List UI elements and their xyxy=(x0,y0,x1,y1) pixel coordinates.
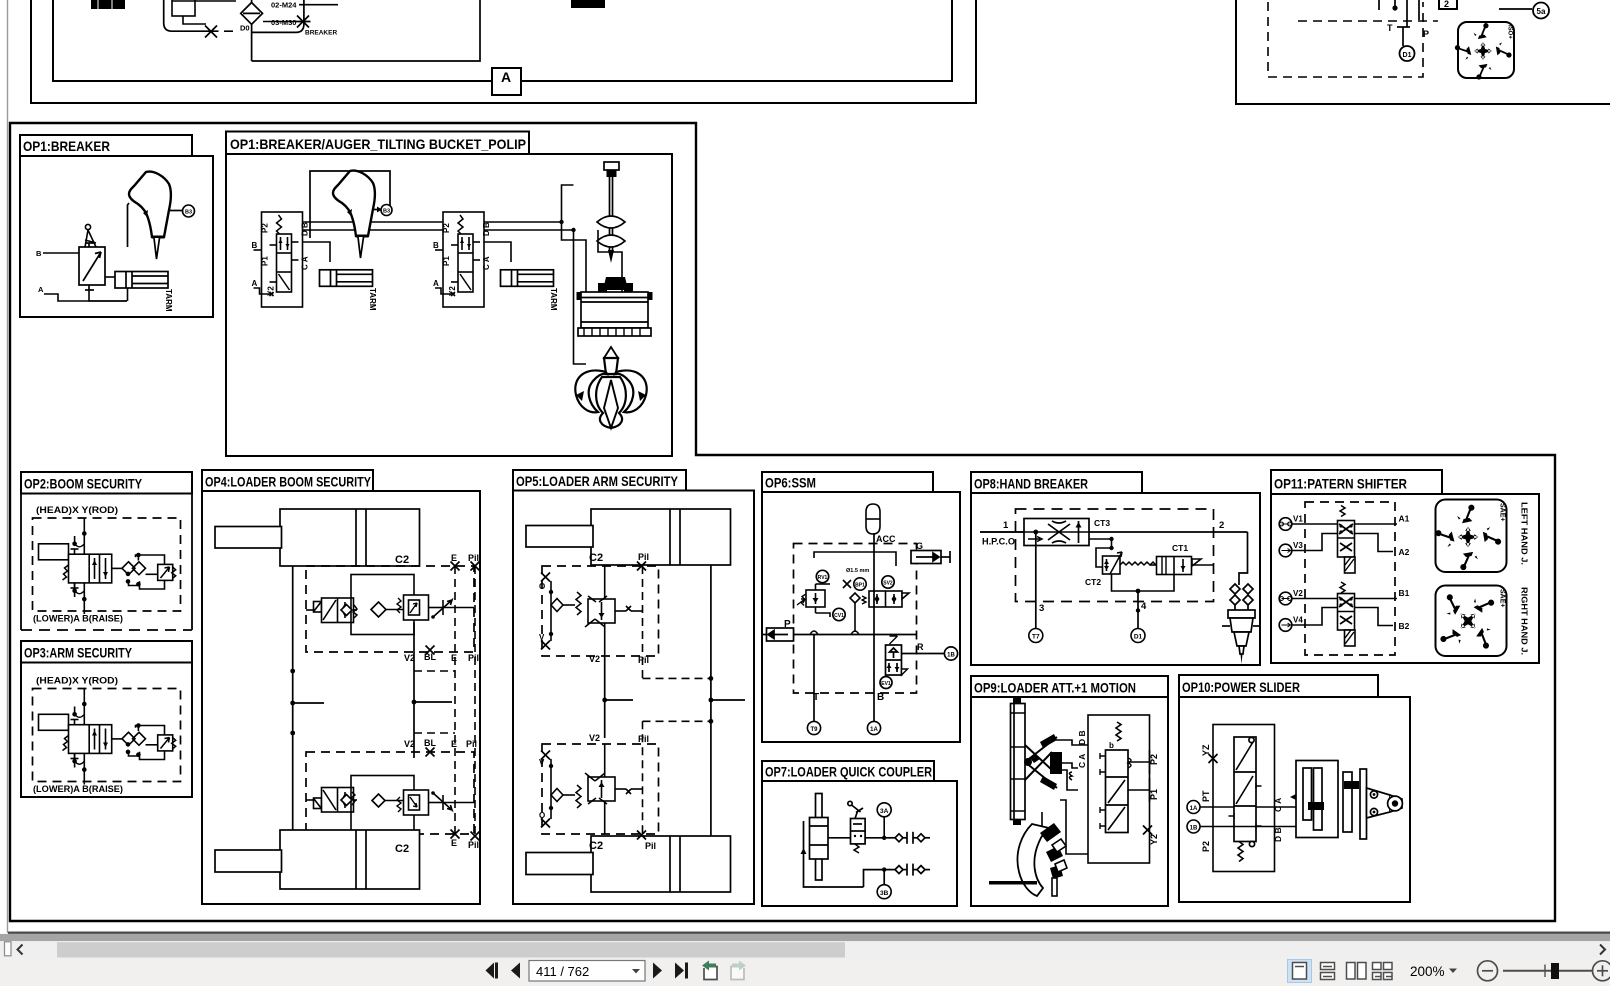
OP9 P rails xyxy=(1128,750,1150,802)
OP2:BOOM SECURITY label box xyxy=(21,472,192,494)
top-left outer drawing frame xyxy=(31,0,976,103)
OP7 coupler cylinder xyxy=(801,794,864,888)
svg-text:OP4:LOADER BOOM SECURITY: OP4:LOADER BOOM SECURITY xyxy=(205,474,372,490)
zoom in xyxy=(1593,961,1610,981)
page bottom shadow line xyxy=(8,932,1610,934)
svg-text:V2: V2 xyxy=(1293,589,1303,598)
OP9 content box xyxy=(971,697,1168,906)
OP9 scissor linkage xyxy=(1024,734,1062,790)
OP1:BREAKER/AUGER label box xyxy=(226,132,529,155)
svg-text:D1: D1 xyxy=(1134,634,1143,641)
OP7 circle 3B xyxy=(877,885,891,899)
OP11 wires V1 A1 xyxy=(1292,514,1410,525)
svg-text:3B: 3B xyxy=(880,890,889,897)
OP4 lower dashed box xyxy=(306,752,474,834)
top-left inner drawing frame xyxy=(53,0,952,81)
svg-text:1: 1 xyxy=(1003,520,1009,531)
OP11 content box xyxy=(1271,494,1539,663)
OP10 valve outer box xyxy=(1213,725,1275,872)
ISO pattern icon box xyxy=(1458,22,1514,78)
OP6 content box xyxy=(762,492,960,742)
OP8 hand breaker tool xyxy=(1222,584,1261,664)
box 2 xyxy=(1439,0,1457,9)
svg-text:2: 2 xyxy=(1219,520,1224,531)
OP4 V2 BL E Pil labels upper xyxy=(404,652,479,663)
svg-text:OP1:BREAKER/AUGER_TILTING BUC: OP1:BREAKER/AUGER_TILTING BUCKET_POLIP xyxy=(230,136,526,152)
OP8 wire 4 to D1 xyxy=(1136,589,1147,629)
svg-text:Pil: Pil xyxy=(468,553,479,563)
OP11 wires V4 B2 xyxy=(1292,608,1410,632)
OP6 circle 1A xyxy=(867,721,880,734)
svg-text:SV2: SV2 xyxy=(883,581,893,587)
OP6:SSM label box xyxy=(762,472,933,492)
svg-text:03-M30: 03-M30 xyxy=(271,18,296,27)
svg-text:BREAKER: BREAKER xyxy=(305,30,337,37)
polyp grab implement xyxy=(575,347,646,428)
OP3 security valve internals xyxy=(39,689,176,785)
svg-text:P1: P1 xyxy=(1149,789,1159,800)
OP4 BL X mark upper xyxy=(426,646,435,655)
OP4:LOADER BOOM SECURITY label box xyxy=(202,470,373,491)
port P xyxy=(1423,29,1429,39)
OP7:LOADER QUICK COUPLER label box xyxy=(762,761,934,781)
svg-text:R: R xyxy=(917,642,924,652)
scrollbar corner box xyxy=(5,942,12,956)
OP6 inner solid box xyxy=(814,552,896,566)
OP7 coupler pair bottom xyxy=(889,864,930,876)
OP4 dashed E Pil rails xyxy=(414,566,475,834)
OP4 upper dashed box xyxy=(306,566,474,652)
pilot sub box xyxy=(172,0,236,24)
svg-text:V4: V4 xyxy=(1293,616,1303,625)
OP2 security valve internals xyxy=(39,518,176,614)
ISO pattern icon glyphs xyxy=(1454,23,1512,80)
svg-text:A: A xyxy=(38,285,44,294)
OP11 RIGHT HAND J text xyxy=(1520,587,1530,655)
svg-text:H.P.C.O: H.P.C.O xyxy=(982,537,1015,548)
svg-text:OP11:PATERN SHIFTER: OP11:PATERN SHIFTER xyxy=(1274,476,1407,492)
OP9 valve outer box xyxy=(1088,715,1150,863)
OP4 port X marks top xyxy=(451,562,480,571)
OP10 wires xyxy=(1200,794,1333,829)
OP11 upper solenoid valve xyxy=(1338,506,1356,574)
prev page button xyxy=(511,963,520,979)
OP3 dashed cartridge box xyxy=(33,689,181,782)
svg-text:T9: T9 xyxy=(810,727,818,733)
svg-text:5a: 5a xyxy=(1537,7,1546,16)
OP1 joystick xyxy=(129,172,171,259)
auger drill implement xyxy=(597,162,625,263)
AUGER valve assembly 1 xyxy=(252,212,310,307)
OP8:HAND BREAKER label box xyxy=(971,472,1142,493)
OP8 content box xyxy=(971,493,1260,665)
svg-text:B3: B3 xyxy=(383,209,390,215)
svg-text:B1: B1 xyxy=(1399,588,1410,598)
AUGER circle B3 xyxy=(381,205,392,216)
OP9 wires linkage to valve xyxy=(1062,763,1078,790)
AUGER cylinder 1 xyxy=(320,270,378,311)
OP4 content box xyxy=(202,491,480,904)
OP1 wire joystick to valve xyxy=(128,203,130,247)
OP4 port X marks bottom xyxy=(451,830,480,841)
AUGER wires assembly1 right xyxy=(303,222,444,262)
svg-text:OP5:LOADER ARM SECURITY: OP5:LOADER ARM SECURITY xyxy=(516,473,679,489)
OP1 wire joystick to B3 xyxy=(170,210,183,212)
svg-text:E: E xyxy=(451,653,457,663)
OP4 center vertical wire xyxy=(412,623,452,759)
svg-text:4: 4 xyxy=(1141,601,1147,612)
last page button xyxy=(675,963,688,979)
OP3 content box xyxy=(21,663,192,798)
OP9:LOADER ATT label box xyxy=(971,676,1168,697)
svg-text:ISO+: ISO+ xyxy=(1507,25,1513,39)
OP10 YZ X mark xyxy=(1209,754,1218,763)
svg-text:OP1:BREAKER: OP1:BREAKER xyxy=(23,138,110,154)
OP6 circle T9 xyxy=(807,721,820,734)
filter diamond D0 xyxy=(240,0,263,33)
svg-text:OP10:POWER SLIDER: OP10:POWER SLIDER xyxy=(1182,679,1300,695)
svg-text:1B: 1B xyxy=(947,653,955,659)
circle 5a xyxy=(1533,3,1549,19)
svg-text:V1: V1 xyxy=(1293,515,1303,524)
svg-text:P2: P2 xyxy=(1201,841,1211,852)
svg-text:3: 3 xyxy=(1039,603,1044,614)
OP6 solenoid valve SV xyxy=(862,591,909,607)
pilot line stubs top xyxy=(1379,0,1419,27)
svg-text:A: A xyxy=(501,69,511,85)
OP6 port P xyxy=(762,619,794,641)
svg-text:Pil: Pil xyxy=(638,552,649,562)
OP1 port A wire xyxy=(38,285,127,301)
sidebar edge line xyxy=(7,0,9,933)
page number input xyxy=(529,961,645,982)
zoom out xyxy=(1478,961,1498,981)
circle D1 xyxy=(1400,46,1415,61)
OP6 X orifice and BP1 xyxy=(843,578,866,590)
svg-text:A2: A2 xyxy=(1399,547,1410,557)
OP5 lower dashed box xyxy=(542,744,659,834)
OP7 lever valve xyxy=(848,801,865,853)
svg-text:2: 2 xyxy=(1444,0,1449,9)
previous view icon xyxy=(702,961,717,980)
svg-text:1A: 1A xyxy=(870,727,878,733)
svg-text:B2: B2 xyxy=(1399,621,1410,631)
svg-text:Pil: Pil xyxy=(638,655,649,665)
tilting bucket implement xyxy=(577,277,653,336)
OP11 right hand pattern box xyxy=(1436,586,1507,657)
OP3:ARM SECURITY label box xyxy=(21,641,192,663)
svg-text:OP2:BOOM SECURITY: OP2:BOOM SECURITY xyxy=(24,476,143,492)
svg-text:E: E xyxy=(451,553,457,563)
OP5:LOADER ARM SECURITY label box xyxy=(513,470,686,491)
OP1 AUGER content box xyxy=(226,154,672,456)
OP6 check valve diamond xyxy=(850,593,860,632)
OP11 circle V2 xyxy=(1279,589,1303,605)
svg-text:ACC: ACC xyxy=(876,534,896,544)
OP4 left vertical wire xyxy=(290,566,324,830)
AUGER implement wires xyxy=(562,185,652,364)
OP6 circle SV2 xyxy=(882,576,894,588)
svg-text:CT3: CT3 xyxy=(1094,518,1110,528)
OP6 relief valve RV xyxy=(797,584,830,617)
layout icon 4 xyxy=(1373,963,1393,980)
OP1 TARM cylinder xyxy=(115,272,173,312)
svg-text:D B: D B xyxy=(1077,730,1087,745)
OP1 circle B3 xyxy=(183,205,195,217)
OP10 circles 1A 1B xyxy=(1187,801,1200,814)
OP1 port B wire xyxy=(36,249,79,258)
svg-text:V2: V2 xyxy=(589,654,600,664)
OP8 circle T7 xyxy=(1029,629,1043,643)
OP8 wire 2 to tool xyxy=(1239,532,1248,585)
svg-text:OP6:SSM: OP6:SSM xyxy=(765,475,816,491)
OP8 CT3 flow control xyxy=(980,518,1110,546)
svg-text:b: b xyxy=(1109,741,1114,750)
svg-text:V: V xyxy=(539,758,545,767)
OP2 dashed cartridge box xyxy=(33,518,181,611)
AUGER wires assembly2 to implements xyxy=(484,222,574,262)
OP1 valve 2/2 xyxy=(79,243,105,290)
svg-text:C2: C2 xyxy=(395,843,409,855)
AUGER wire to B3 xyxy=(374,207,382,213)
OP9 attachment plate xyxy=(1011,698,1026,825)
svg-text:O: O xyxy=(539,811,545,820)
svg-text:(LOWER)A B(RAISE): (LOWER)A B(RAISE) xyxy=(33,784,123,795)
svg-text:P: P xyxy=(1423,29,1429,39)
svg-text:E: E xyxy=(451,838,457,848)
AUGER cylinder 2 xyxy=(501,270,559,311)
OP6 port G xyxy=(911,541,950,564)
AUGER joystick xyxy=(333,171,375,258)
scrollbar thumb xyxy=(57,942,845,957)
OP7 coupler pair top xyxy=(889,832,930,844)
OP8 CT2 sub box xyxy=(1085,548,1156,591)
OP1:BREAKER label box xyxy=(20,135,192,156)
plugged port asterisk right xyxy=(296,16,311,28)
svg-text:(HEAD)X Y(ROD): (HEAD)X Y(ROD) xyxy=(36,505,118,516)
OP6 main P rail xyxy=(794,631,917,635)
svg-text:200%: 200% xyxy=(1410,964,1445,979)
OP3 label LOWER RAISE xyxy=(33,784,123,795)
svg-text:411 / 762: 411 / 762 xyxy=(536,964,589,979)
main option section border xyxy=(10,123,1555,921)
svg-text:OP3:ARM SECURITY: OP3:ARM SECURITY xyxy=(24,645,133,661)
OP9 ground line xyxy=(989,881,1037,885)
OP4 upper valve group xyxy=(306,575,474,635)
svg-text:LEFT HAND J.: LEFT HAND J. xyxy=(1520,502,1530,565)
OP5 lower valve group xyxy=(541,744,643,834)
OP10 valve labels xyxy=(1201,744,1283,852)
svg-text:D0: D0 xyxy=(240,24,250,33)
OP11 wires V3 A2 xyxy=(1292,534,1410,558)
black component top-left xyxy=(91,0,125,9)
OP5 V2 Pil labels lower xyxy=(589,733,649,744)
svg-text:V3: V3 xyxy=(1293,541,1303,550)
svg-text:SAE+: SAE+ xyxy=(1499,503,1506,521)
OP8 wire 3 to T7 xyxy=(1036,532,1044,629)
OP5 C2 label top xyxy=(589,552,603,564)
pilot wire with rounded bend xyxy=(164,0,204,31)
svg-text:D1: D1 xyxy=(1403,52,1412,59)
OP2 label LOWER RAISE xyxy=(33,614,123,625)
junction dot xyxy=(1392,5,1397,10)
OP11 left hand pattern glyphs xyxy=(1435,503,1506,571)
OP6 orifice label xyxy=(846,568,869,574)
svg-text:CT2: CT2 xyxy=(1085,577,1101,587)
OP6 R line with check block xyxy=(886,636,958,675)
AUGER junction dots xyxy=(559,220,575,232)
OP5 Pil label top xyxy=(637,552,649,571)
OP8 wire CT3 to CT2 xyxy=(1089,537,1114,550)
svg-text:PT: PT xyxy=(1201,790,1211,802)
OP4 C2 label bottom xyxy=(395,843,409,855)
svg-text:TARM: TARM xyxy=(549,288,558,311)
dashed wire top-right xyxy=(1298,20,1438,22)
svg-text:SAE+: SAE+ xyxy=(1499,589,1506,607)
OP5 V2 Pil labels upper xyxy=(589,654,649,665)
OP10:POWER SLIDER label box xyxy=(1179,675,1378,697)
svg-text:RIGHT HAND J.: RIGHT HAND J. xyxy=(1520,587,1530,655)
svg-text:Pil: Pil xyxy=(468,653,479,663)
OP1 hand lever xyxy=(85,224,96,247)
OP6 T and B wires xyxy=(813,533,884,722)
OP8 dashed boundary xyxy=(1016,509,1214,602)
viewer chrome bottom xyxy=(0,932,1610,986)
layout icon 3 xyxy=(1347,963,1367,980)
OP11 circle V1 xyxy=(1279,515,1303,531)
black component top-middle xyxy=(571,0,605,8)
svg-text:B3: B3 xyxy=(185,210,192,216)
OP8 port 1 HPCO xyxy=(982,520,1015,548)
svg-text:OP8:HAND BREAKER: OP8:HAND BREAKER xyxy=(974,476,1088,492)
breaker return bend wire xyxy=(252,0,304,32)
OP5 top cylinder xyxy=(526,509,731,565)
OP4 BL X mark lower xyxy=(426,748,435,757)
OP8 CT1 valve xyxy=(1138,543,1214,591)
next view icon (disabled) xyxy=(731,961,746,980)
svg-text:C A: C A xyxy=(1273,798,1283,812)
svg-text:RV1: RV1 xyxy=(818,575,828,581)
zoom slider xyxy=(1503,970,1592,972)
next page button xyxy=(653,963,662,979)
top-right dashed enclosure xyxy=(1268,2,1423,77)
svg-text:B: B xyxy=(36,249,42,258)
OP4 lower valve group mirrored xyxy=(306,776,474,836)
toolbar background xyxy=(0,959,1610,986)
svg-text:C2: C2 xyxy=(589,552,603,564)
OP6 circle CV1 xyxy=(833,608,845,620)
OP4 V2 BL E Pil labels lower xyxy=(404,738,477,749)
svg-text:E: E xyxy=(451,739,457,749)
svg-text:(LOWER)A B(RAISE): (LOWER)A B(RAISE) xyxy=(33,614,123,625)
wire 02-M24 xyxy=(271,1,338,10)
OP11 circle V3 xyxy=(1279,541,1303,557)
AUGER wire joystick top loop xyxy=(310,171,390,238)
OP4 E Pil labels top xyxy=(451,553,479,563)
svg-text:Pil: Pil xyxy=(466,739,477,749)
svg-text:V2: V2 xyxy=(404,739,415,749)
OP6 accumulator ACC xyxy=(866,504,896,544)
svg-text:TARM: TARM xyxy=(368,288,377,311)
svg-text:BP1: BP1 xyxy=(855,583,865,589)
scrollbar right arrow xyxy=(1600,945,1605,955)
svg-text:3A: 3A xyxy=(880,808,889,815)
zone marker box A xyxy=(492,68,521,95)
svg-text:02-M24: 02-M24 xyxy=(271,1,297,10)
OP11 circle V4 xyxy=(1279,616,1303,632)
svg-text:V: V xyxy=(539,633,545,642)
OP10 valve body xyxy=(1229,737,1262,862)
svg-text:Pil: Pil xyxy=(645,841,656,851)
OP11 left hand pattern box xyxy=(1436,500,1507,573)
OP5 right vertical wire xyxy=(709,565,746,837)
svg-text:A1: A1 xyxy=(1399,514,1410,524)
sub-circuit right enclosure xyxy=(252,0,480,61)
OP7 wire to couplers top xyxy=(865,837,890,839)
OP2 label HEADX YROD xyxy=(36,505,118,516)
OP5 lower valve OV labels xyxy=(539,758,545,820)
OP5 bottom cylinder xyxy=(526,836,731,892)
layout icon 2 xyxy=(1321,963,1335,980)
OP9 boot implement xyxy=(1017,823,1067,896)
OP11 dashed boundary xyxy=(1305,502,1395,655)
svg-text:BL: BL xyxy=(424,738,436,748)
port T xyxy=(1387,23,1410,46)
OP5 Pil label bottom xyxy=(637,831,656,852)
BREAKER label xyxy=(305,30,337,37)
OP7 wire bottom xyxy=(864,867,891,887)
svg-text:CV1: CV1 xyxy=(834,613,844,619)
OP11 lower solenoid valve xyxy=(1338,582,1356,646)
OP11 wires V2 B1 xyxy=(1292,588,1410,599)
OP2 content box xyxy=(21,494,192,631)
OP5 center vertical wire xyxy=(602,656,633,738)
svg-text:P2: P2 xyxy=(1149,754,1159,765)
OP6 circle EV1 xyxy=(880,677,892,689)
scrollbar track xyxy=(0,941,1610,958)
OP9 Y2 X mark xyxy=(1143,826,1152,835)
plugged port asterisk left with dash xyxy=(204,26,238,38)
gray gap band xyxy=(0,934,1610,941)
OP8 main line xyxy=(980,520,1248,532)
OP11 LEFT HAND J text xyxy=(1520,502,1530,565)
OP1:BREAKER content box xyxy=(20,156,213,317)
AUGER valve assembly 2 xyxy=(433,212,491,307)
svg-text:OP9:LOADER ATT.+1 MOTION: OP9:LOADER ATT.+1 MOTION xyxy=(974,680,1136,696)
OP10 content box xyxy=(1179,697,1410,902)
svg-text:V2: V2 xyxy=(589,733,600,743)
label 03-M30 xyxy=(263,18,296,27)
OP5 content box xyxy=(513,491,754,905)
OP6 dashed block boundary xyxy=(794,544,917,694)
OP5 upper valve group xyxy=(539,566,643,656)
OP11 right hand pattern glyphs xyxy=(1421,574,1515,668)
OP7 content box xyxy=(762,781,957,906)
OP3 label HEADX YROD xyxy=(36,676,118,687)
svg-text:OP7:LOADER QUICK COUPLER: OP7:LOADER QUICK COUPLER xyxy=(765,764,932,780)
OP4 C2 label top xyxy=(395,554,409,566)
svg-text:1B: 1B xyxy=(1190,826,1198,832)
wire from D0 down xyxy=(251,24,253,61)
OP4 E Pil labels bottom xyxy=(451,838,479,850)
OP9 valve labels xyxy=(1077,730,1159,845)
svg-text:B: B xyxy=(877,692,884,703)
scrollbar left arrow xyxy=(18,945,23,955)
svg-text:Y2: Y2 xyxy=(1149,834,1159,845)
svg-text:Pil: Pil xyxy=(638,734,649,744)
OP4 top cylinder xyxy=(215,509,420,566)
wire to 5a xyxy=(1499,8,1532,10)
